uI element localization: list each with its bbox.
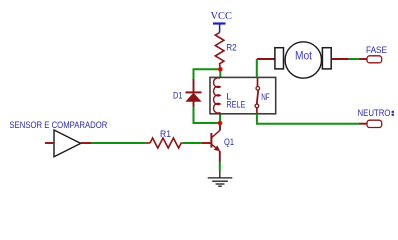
- diode D1: [173, 79, 202, 107]
- op-amp comparator triangle: [45, 130, 91, 157]
- svg-text:NEUTRO: NEUTRO: [358, 108, 391, 118]
- wire NF bottom to NEUTRO terminal: [257, 114, 359, 124]
- node junction A: [218, 67, 223, 72]
- wire comparator output to R1: [91, 142, 146, 144]
- wire motor right to FASE terminal: [331, 58, 349, 60]
- ground: [208, 178, 233, 186]
- svg-text:RELE: RELE: [226, 100, 245, 110]
- svg-text:SENSOR E COMPARADOR: SENSOR E COMPARADOR: [9, 120, 107, 130]
- relay body box: [210, 77, 276, 113]
- svg-text:FASE: FASE: [366, 45, 387, 55]
- power symbol VCC: [211, 11, 233, 33]
- node junction B: [218, 121, 223, 126]
- svg-text:D1: D1: [173, 91, 183, 101]
- terminal NEUTRO: [358, 108, 394, 128]
- svg-text:VCC: VCC: [211, 11, 233, 22]
- svg-text:R1: R1: [160, 129, 171, 139]
- wire relay coil bottom to junction B: [219, 114, 221, 123]
- wire junction A to D1 top: [194, 69, 221, 79]
- relay contact NF: [255, 77, 270, 113]
- transistor Q1: [211, 123, 234, 162]
- svg-text:Q1: Q1: [224, 137, 234, 147]
- wire junction A down to relay coil top: [219, 69, 221, 77]
- wire motor left to NF top: [257, 58, 275, 60]
- resistor R1: [146, 129, 183, 148]
- wire green segment to FASE: [349, 58, 359, 60]
- wire FASE terminal red lead: [359, 58, 367, 60]
- svg-text:NF: NF: [261, 92, 270, 102]
- wire ground black lead: [219, 171, 221, 178]
- wire down from motor wire corner to relay box top: [256, 59, 258, 77]
- wire D1 bottom to junction B: [194, 107, 221, 124]
- svg-text:R2: R2: [226, 42, 237, 52]
- wire NEUTRO terminal red lead: [359, 123, 367, 125]
- inductor L RELE (relay coil): [214, 78, 246, 114]
- svg-text:Mot: Mot: [295, 51, 313, 63]
- wire R1 to Q1 base: [183, 142, 202, 144]
- resistor R2: [215, 33, 236, 70]
- wire Q1 emitter to ground: [219, 162, 221, 171]
- motor Mot: [275, 42, 331, 78]
- wire Q1 base pin red lead: [202, 142, 212, 144]
- terminal FASE: [366, 45, 387, 63]
